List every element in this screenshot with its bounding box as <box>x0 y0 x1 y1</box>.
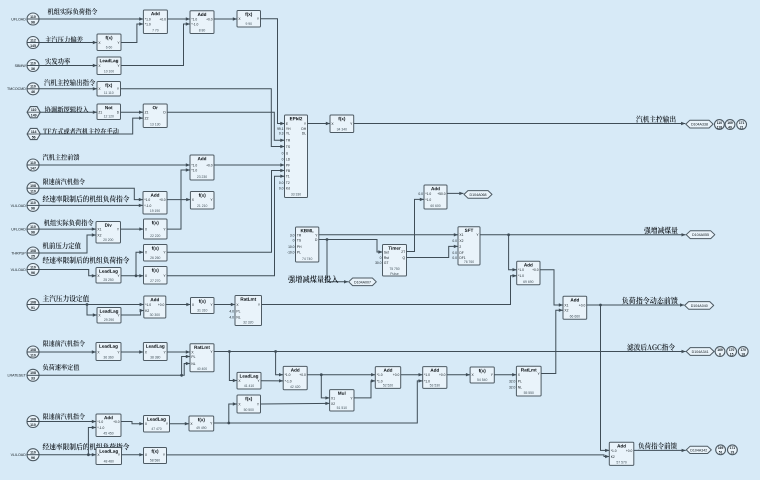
wire row3 to LeadLag10.X <box>39 64 97 67</box>
svg-text:D104A068: D104A068 <box>470 193 487 197</box>
svg-text:0.3: 0.3 <box>279 131 284 135</box>
svg-text:D104A338: D104A338 <box>691 123 708 127</box>
svg-text:TR: TR <box>297 233 302 237</box>
input circle UFLOAD (row 1) <box>11 13 39 25</box>
svg-text:23 230: 23 230 <box>197 175 207 179</box>
svg-text:*1.0: *1.0 <box>425 192 431 196</box>
block LeadLag25 <box>96 268 121 284</box>
svg-text:169: 169 <box>727 121 733 125</box>
svg-text:32 320: 32 320 <box>243 321 253 325</box>
svg-text:TR: TR <box>286 139 291 143</box>
svg-text:PL: PL <box>191 355 195 359</box>
svg-text:Rst: Rst <box>384 256 389 260</box>
svg-text:0.0: 0.0 <box>452 256 457 260</box>
svg-text:4.0: 4.0 <box>229 315 234 319</box>
svg-text:171: 171 <box>739 121 745 125</box>
svg-text:Kd: Kd <box>286 187 290 191</box>
wire row6 TF tag to Or13.Z2 <box>40 116 143 134</box>
output pill D104A040 <box>685 302 714 310</box>
svg-text:*-1.0: *-1.0 <box>144 204 151 208</box>
wire row14 to LeadLag36.X <box>39 350 96 353</box>
block f(x)54 <box>470 367 494 383</box>
svg-text:110: 110 <box>30 265 36 269</box>
block RatLmt40 <box>190 344 214 372</box>
svg-text:+0.0: +0.0 <box>626 449 633 453</box>
svg-text:33 330: 33 330 <box>291 193 301 197</box>
svg-text:25 250: 25 250 <box>103 278 113 282</box>
wire branch row17 up to Add45.X2 <box>88 426 96 455</box>
wire Add57 out load demand feedforward <box>634 449 686 452</box>
svg-text:LD: LD <box>286 157 291 161</box>
output circle 110/118 <box>715 120 725 130</box>
svg-text:110: 110 <box>30 85 36 89</box>
svg-text:X2: X2 <box>459 239 463 243</box>
svg-text:49 490: 49 490 <box>196 426 206 430</box>
svg-text:108: 108 <box>30 417 36 421</box>
wire Add69 out down to Add66.X1 <box>540 270 563 307</box>
block Add69 <box>517 261 540 284</box>
svg-text:PL: PL <box>297 250 301 254</box>
block LeadLag41 <box>237 372 261 389</box>
svg-text:8 80: 8 80 <box>199 29 206 33</box>
svg-text:*1.0: *1.0 <box>191 168 197 172</box>
wire f(x)31.Y to RatLmt32.X <box>214 303 235 306</box>
block f(x)21 <box>190 192 214 210</box>
svg-text:34 340: 34 340 <box>337 128 347 132</box>
svg-text:6 60: 6 60 <box>106 46 113 50</box>
output pill D104A338 <box>686 120 713 128</box>
wire RatLmt40.Y AGC line <box>214 350 686 353</box>
svg-text:118: 118 <box>717 125 722 129</box>
svg-text:96: 96 <box>31 207 35 211</box>
svg-text:110: 110 <box>30 423 36 427</box>
svg-text:110: 110 <box>30 451 36 455</box>
svg-text:54 540: 54 540 <box>477 378 487 382</box>
block SFT76 <box>452 227 480 265</box>
svg-text:+0.0: +0.0 <box>113 420 120 424</box>
wire branch Add66 down to Add57.X1 <box>601 305 610 452</box>
svg-text:2: 2 <box>459 245 461 249</box>
svg-text:VLILOAD: VLILOAD <box>11 268 27 272</box>
svg-text:0.0: 0.0 <box>279 187 284 191</box>
wire branch down to LeadLag41.X <box>229 352 237 383</box>
svg-text:*1.0: *1.0 <box>145 303 151 307</box>
svg-text:29 290: 29 290 <box>104 318 114 322</box>
block Div20 <box>96 222 121 244</box>
label 滤波后AGC指令 (output) <box>627 344 675 351</box>
block Add60 <box>418 185 447 209</box>
svg-text:PF: PF <box>286 163 290 167</box>
svg-text:145: 145 <box>30 44 36 48</box>
wire f(x)11.Y to EPId2.TS <box>121 89 285 148</box>
block Add8 <box>190 11 214 34</box>
wire branch row13 down to LeadLag29.X <box>87 305 97 317</box>
svg-text:12 120: 12 120 <box>104 115 114 119</box>
svg-text:PH: PH <box>297 245 302 249</box>
wire row7 to Add23.X1 <box>39 163 190 166</box>
label 汽机主控输出指令 (row 4) <box>44 79 95 86</box>
wire row1 UFLOAD to Add7.X1 <box>39 17 143 20</box>
svg-text:T2: T2 <box>286 181 290 185</box>
svg-text:2T: 2T <box>401 250 405 254</box>
svg-text:Z1: Z1 <box>98 111 102 115</box>
svg-text:49: 49 <box>728 125 732 129</box>
svg-text:UFLOAD: UFLOAD <box>11 17 26 21</box>
wire LeadLag47.Y to f(x)49.X <box>170 422 190 425</box>
input circle main steam pressure deviation (row 2) <box>27 37 39 49</box>
block Timer75 <box>375 245 406 277</box>
wire Add53 out to f(x)54.X <box>447 373 470 376</box>
wire branch up to f(x)50.X <box>229 402 237 423</box>
input circle UFLOAD (row 10) <box>11 223 39 235</box>
wire row12 to LeadLag25.X <box>39 270 96 278</box>
svg-text:66 660: 66 660 <box>570 315 580 319</box>
svg-text:53 530: 53 530 <box>430 384 440 388</box>
svg-text:0.0: 0.0 <box>452 239 457 243</box>
svg-text:X2: X2 <box>97 233 101 237</box>
svg-text:0.0: 0.0 <box>279 181 284 185</box>
wire branch LRATESET to RatLmt40.PL <box>182 355 190 376</box>
svg-text:108: 108 <box>30 184 36 188</box>
svg-text:0.0: 0.0 <box>452 251 457 255</box>
svg-text:91: 91 <box>31 306 35 310</box>
svg-text:76 760: 76 760 <box>464 260 474 264</box>
svg-text:52 520: 52 520 <box>383 384 393 388</box>
block Not12 <box>97 104 121 120</box>
svg-text:Set: Set <box>384 250 389 254</box>
input circle SBMW (row 3) <box>15 60 39 72</box>
label 协调新逻辑投入 (row 5) <box>45 106 89 113</box>
svg-text:*1.0: *1.0 <box>191 163 197 167</box>
svg-text:42 420: 42 420 <box>290 385 300 389</box>
wire Not12.D to Or13.Z1 <box>121 111 144 114</box>
svg-text:X2: X2 <box>331 402 335 406</box>
svg-text:110: 110 <box>30 201 36 205</box>
svg-text:THRPSP: THRPSP <box>11 251 26 255</box>
svg-text:112: 112 <box>30 38 36 42</box>
label 强增减煤量 (output) <box>644 227 677 234</box>
wire f(x)49.Y to Add53.X2 with branch to f(x)50 <box>214 379 423 424</box>
block f(x)58 <box>144 448 167 464</box>
label 限速前汽机指令 (row 16) <box>43 413 85 420</box>
svg-text:Z2: Z2 <box>145 117 149 121</box>
svg-text:Pulse: Pulse <box>390 272 399 276</box>
svg-text:114: 114 <box>31 130 37 134</box>
block f(x)27 <box>144 267 168 285</box>
svg-text:170: 170 <box>740 348 746 352</box>
input circle main steam pressure setpoint (row 13) <box>27 299 39 311</box>
svg-text:69 690: 69 690 <box>523 280 533 284</box>
svg-text:*1.0: *1.0 <box>611 449 617 453</box>
svg-text:UFLOAD: UFLOAD <box>11 228 26 232</box>
svg-text:D104A342: D104A342 <box>690 448 707 452</box>
svg-text:48 480: 48 480 <box>104 460 114 464</box>
wire branch down to Add69.X1 <box>509 235 517 272</box>
svg-text:+0.0: +0.0 <box>159 198 166 202</box>
block Add42 <box>283 366 307 389</box>
wire Add8 out to f(x)9.X <box>214 17 237 20</box>
input tag TF mode (row 6) <box>27 128 40 139</box>
wire Add19 out to f(x)21.X <box>167 198 190 201</box>
output circle 170/18 <box>738 347 748 357</box>
block RatLmt32 <box>229 296 261 326</box>
block LeadLag47 <box>144 416 170 433</box>
input circle turbine master feedforward (row 7) <box>27 159 39 171</box>
block Add23 feedforward sum <box>190 155 214 180</box>
input tag coordination logic (row 5) <box>27 107 40 118</box>
input circle TMCOCMD (row 4) <box>7 83 39 95</box>
svg-text:+0.0: +0.0 <box>206 17 213 21</box>
wire Div20.Y to f(x)22.X <box>121 227 144 230</box>
svg-text:0: 0 <box>282 151 284 155</box>
output pill D104A342 <box>686 446 711 453</box>
svg-text:169: 169 <box>717 348 723 352</box>
svg-text:TMCOCMD: TMCOCMD <box>7 87 26 91</box>
svg-text:32.0: 32.0 <box>509 385 516 389</box>
wire RatLmt55.Y up to Add66.X2 <box>541 309 563 374</box>
block Mul51 <box>330 390 354 411</box>
svg-text:108: 108 <box>30 348 36 352</box>
wire LeadLag48.Y to f(x)58.X <box>122 453 144 456</box>
svg-text:6: 6 <box>719 352 721 356</box>
wire Add66 out dynamic feedforward line <box>587 303 685 306</box>
wire LeadLag38.Y to RatLmt40.X <box>167 350 190 353</box>
label 机组实际负荷指令 (row 1) <box>48 8 98 15</box>
svg-text:*1.0: *1.0 <box>377 373 383 377</box>
svg-text:+0.0: +0.0 <box>579 303 586 307</box>
block f(x)22 <box>144 219 168 239</box>
wire f(x)9.Y down to EPId2.E <box>261 19 285 125</box>
output pill D104A007 <box>349 278 377 286</box>
svg-text:45 450: 45 450 <box>103 432 113 436</box>
wire Add30 out to f(x)31.X <box>166 303 191 306</box>
svg-text:108: 108 <box>30 371 36 375</box>
svg-text:22 220: 22 220 <box>150 234 160 238</box>
block f(x)31 <box>191 298 215 314</box>
wire LeadLag10.Y to Add8.X2 <box>121 22 190 65</box>
svg-text:K2: K2 <box>611 455 615 459</box>
block f(x)26 <box>144 245 168 262</box>
wire EPId2.Y to f(x)34.X <box>308 122 331 125</box>
label 负荷指令前馈 (output) <box>638 442 677 449</box>
output pill D104A068 <box>464 191 492 199</box>
block Add53 <box>423 367 447 389</box>
svg-text:96: 96 <box>31 456 35 460</box>
wire branch KBML.D down to pill D104A007 <box>327 240 348 284</box>
svg-text:21 210: 21 210 <box>197 204 207 208</box>
wire Add52 out to Add53.X1 <box>401 373 423 376</box>
wire f(x)6.Y to Add7.X2 <box>121 22 143 42</box>
svg-text:DL: DL <box>302 131 306 135</box>
output pill D104A341 <box>686 348 714 356</box>
svg-text:51: 51 <box>719 451 723 455</box>
label 经速率限制后的机组负荷指令 (row 17) <box>43 443 130 450</box>
svg-text:18: 18 <box>741 352 745 356</box>
svg-text:110: 110 <box>717 121 722 125</box>
input circle LRATESET (row 15) <box>7 369 39 381</box>
svg-text:7 70: 7 70 <box>152 29 159 33</box>
block Add45 <box>96 414 121 437</box>
wire Or13.D to EPId2.TR <box>167 112 284 142</box>
block Add57 <box>609 442 634 465</box>
svg-text:T1: T1 <box>286 175 290 179</box>
wire turbine master output line <box>354 122 686 125</box>
svg-text:40 400: 40 400 <box>197 367 207 371</box>
block KBML74 <box>287 227 319 262</box>
svg-text:50 500: 50 500 <box>244 408 254 412</box>
svg-text:19 190: 19 190 <box>150 209 160 213</box>
svg-text:32.0: 32.0 <box>509 379 516 383</box>
label 汽机主控输出 (output) <box>636 116 675 123</box>
input circle VLILOAD (row 9) <box>11 199 39 211</box>
svg-text:23: 23 <box>731 451 735 455</box>
svg-text:0.0: 0.0 <box>418 192 423 196</box>
svg-text:58 580: 58 580 <box>150 459 160 463</box>
wire f(x)58.Y long line to Add57.K2 <box>167 455 610 458</box>
output pill D104A055 <box>686 231 715 239</box>
svg-text:57 570: 57 570 <box>616 461 626 465</box>
svg-text:+0.0: +0.0 <box>439 373 446 377</box>
wire Add23 out to EPId2.PF <box>214 163 285 166</box>
block Add52 <box>375 367 400 389</box>
svg-text:*1.0: *1.0 <box>424 373 430 377</box>
block Add19 <box>143 192 167 215</box>
svg-text:110: 110 <box>30 190 36 194</box>
svg-text:*1.0: *1.0 <box>518 268 524 272</box>
label 汽机主控前馈 (row 7) <box>43 154 80 161</box>
svg-text:110: 110 <box>30 61 36 65</box>
input circle pre-limit turbine demand (row 16) <box>27 416 39 428</box>
svg-text:51 510: 51 510 <box>337 406 347 410</box>
svg-text:96: 96 <box>31 271 35 275</box>
wire row11 THRPSP to Div20.X2 <box>39 233 96 253</box>
block LeadLag48 <box>96 448 122 465</box>
wire row16 to Add45.X1 <box>39 420 96 423</box>
svg-text:+50.0: +50.0 <box>437 192 446 196</box>
wire row4 to f(x)11.X <box>39 87 97 90</box>
block f(x)11 turbine master output cmd <box>97 82 121 97</box>
wire f(x)50.Y to Mul51.X2 <box>261 402 330 405</box>
block EPId2 main PID controller <box>277 115 307 198</box>
svg-text:*1.0: *1.0 <box>145 17 151 21</box>
label 限速前汽机指令 (row 8) <box>43 178 85 185</box>
block LeadLag36 <box>96 343 121 361</box>
svg-text:171: 171 <box>730 446 736 450</box>
block f(x)50 <box>237 395 261 413</box>
svg-text:*1.0: *1.0 <box>424 379 430 383</box>
block LeadLag29 <box>97 308 121 324</box>
svg-text:46: 46 <box>31 90 35 94</box>
label 经速率限制后的机组负荷指令 (row 12) <box>43 257 130 264</box>
wire row15 LRATESET to RatLmt40.NL <box>39 362 190 377</box>
svg-text:20 200: 20 200 <box>103 238 113 242</box>
svg-text:*-1.0: *-1.0 <box>285 379 292 383</box>
svg-text:169: 169 <box>718 446 724 450</box>
svg-text:0: 0 <box>380 256 382 260</box>
wire branch up to f(x)26.X <box>136 251 144 276</box>
svg-text:36: 36 <box>31 67 35 71</box>
svg-text:*-1.0: *-1.0 <box>191 22 198 26</box>
block f(x)34 <box>330 115 354 133</box>
wire RatLmt32.Y long line up to Add69.X2 <box>262 274 517 304</box>
wire f(x)54.Y to RatLmt55.X <box>494 373 516 376</box>
svg-text:9 90: 9 90 <box>245 22 252 26</box>
svg-text:D104A007: D104A007 <box>354 280 371 284</box>
svg-text:108: 108 <box>30 300 36 304</box>
svg-text:21: 21 <box>740 125 744 129</box>
svg-text:D104A040: D104A040 <box>691 304 708 308</box>
svg-text:GT: GT <box>384 261 389 265</box>
svg-text:33: 33 <box>31 377 35 381</box>
output circle 171/23 <box>728 445 738 455</box>
wire row2 to f(x)6.X <box>39 41 97 44</box>
wire row9 to Add19.X2 <box>39 204 143 207</box>
wire SFT76.Y strong coal line with branch to Add69.X1 <box>480 233 686 236</box>
svg-text:*1.0: *1.0 <box>285 373 291 377</box>
svg-text:+0.0: +0.0 <box>299 373 306 377</box>
svg-text:*-1.0: *-1.0 <box>97 426 104 430</box>
svg-text:VLILOAD: VLILOAD <box>11 204 27 208</box>
block LeadLag10 generated power <box>97 57 121 75</box>
svg-text:108: 108 <box>30 249 36 253</box>
svg-text:15: 15 <box>730 352 734 356</box>
wire Timer.Q to SFT76 pin 2 <box>407 245 459 258</box>
svg-text:11 110: 11 110 <box>104 91 114 95</box>
svg-text:38 380: 38 380 <box>150 356 160 360</box>
svg-text:*1.0: *1.0 <box>191 17 197 21</box>
label TF方式或者汽机主控在手动 (row 6) <box>43 128 119 135</box>
svg-text:75 750: 75 750 <box>389 267 399 271</box>
label 主汽压力设定值 (row 13) <box>43 295 89 302</box>
label 经速率限制后的机组负荷指令 (row 9) <box>43 195 130 202</box>
svg-text:+0.0: +0.0 <box>158 303 165 307</box>
svg-text:X1: X1 <box>97 228 101 232</box>
svg-text:+0.0: +0.0 <box>532 268 539 272</box>
svg-text:D104A341: D104A341 <box>692 350 709 354</box>
svg-text:+0.0: +0.0 <box>393 373 400 377</box>
wire row5 to Not12.Z1 <box>40 111 97 114</box>
svg-text:0: 0 <box>282 157 284 161</box>
wire row10 to Div20.X1 <box>39 227 96 230</box>
svg-text:110: 110 <box>30 15 36 19</box>
svg-text:K2: K2 <box>145 309 149 313</box>
svg-text:110: 110 <box>31 108 37 112</box>
wire LeadLag41.Y to Add42.X2 <box>261 379 283 382</box>
svg-text:3.0: 3.0 <box>290 233 295 237</box>
svg-text:YL: YL <box>286 131 290 135</box>
wire LeadLag36.Y to LeadLag38.X <box>121 350 143 353</box>
block RatLmt55 <box>509 366 541 396</box>
wire f(x)22.Y up to Add23.X2 <box>167 168 190 229</box>
svg-text:30.0: 30.0 <box>375 261 382 265</box>
svg-text:4.0: 4.0 <box>229 309 234 313</box>
wire KBML.Y to SFT76.X1 <box>319 233 458 236</box>
wire Timer.2T up to Add60.X2 <box>407 198 425 252</box>
svg-text:13 130: 13 130 <box>150 123 160 127</box>
svg-text:47 470: 47 470 <box>151 427 161 431</box>
svg-text:PL: PL <box>236 309 240 313</box>
svg-text:110: 110 <box>30 353 36 357</box>
svg-text:*1.0: *1.0 <box>97 420 103 424</box>
svg-text:147: 147 <box>30 166 36 170</box>
input circle pre-limit turbine demand (row 14) <box>27 346 39 358</box>
svg-text:DF1: DF1 <box>459 256 465 260</box>
svg-text:X1: X1 <box>564 303 568 307</box>
svg-text:60 600: 60 600 <box>430 204 440 208</box>
block f(x)9 <box>237 11 261 28</box>
svg-text:NL: NL <box>191 362 195 366</box>
svg-text:X1: X1 <box>331 396 335 400</box>
